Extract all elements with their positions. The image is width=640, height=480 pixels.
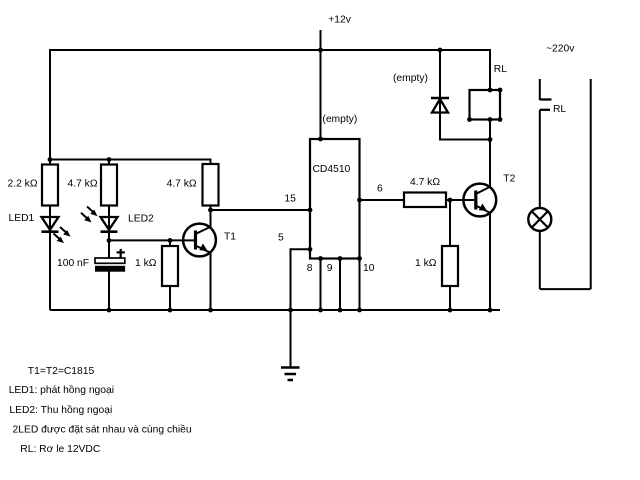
svg-text:1 kΩ: 1 kΩ bbox=[135, 258, 157, 269]
wire C1 bottom bbox=[108, 272, 110, 311]
node rail T1 emitter bbox=[208, 308, 213, 313]
node IC feed at IC top bbox=[318, 137, 323, 142]
relay RL coil box bbox=[470, 90, 501, 120]
svg-text:9: 9 bbox=[327, 263, 333, 274]
node pin8 top bbox=[318, 256, 323, 261]
LED2 receive arrow a bbox=[87, 207, 95, 214]
svg-text:6: 6 bbox=[377, 184, 383, 195]
transistor T2 collector bbox=[477, 140, 490, 194]
node rail T2 emitter bbox=[488, 308, 493, 313]
+12v stub wire bbox=[320, 30, 322, 50]
transistor T1 circle bbox=[183, 224, 216, 257]
resistor R5 1k box bbox=[162, 246, 178, 286]
LED1 emit arrow a bbox=[60, 227, 68, 234]
resistor R1 2.2k box bbox=[42, 165, 58, 206]
wire pin9 bbox=[339, 259, 341, 311]
wire ground stem bbox=[290, 310, 292, 368]
capacitor C1 100nF plus sign bbox=[117, 249, 125, 258]
node diode top junction bbox=[438, 48, 443, 53]
resistor R6 1k box bbox=[442, 246, 458, 286]
wire IC power feed bbox=[320, 50, 322, 139]
wire stub R2 bbox=[108, 160, 110, 166]
transistor T1 emitter arrow bbox=[199, 244, 207, 251]
svg-text:CD4510: CD4510 bbox=[313, 164, 351, 175]
svg-text:LED2: Thu hồng ngoại: LED2: Thu hồng ngoại bbox=[9, 404, 112, 416]
svg-text:T1: T1 bbox=[224, 232, 236, 243]
wire R4 to T2 base bbox=[446, 199, 474, 201]
wire mains bottom bbox=[540, 288, 591, 290]
svg-text:RL: RL bbox=[553, 104, 566, 115]
svg-text:2LED được đặt sát nhau và cùng: 2LED được đặt sát nhau và cùng chiều bbox=[13, 424, 192, 436]
LED1 emit arrow b bbox=[54, 234, 62, 241]
transistor T2 circle bbox=[463, 184, 496, 217]
wire R6 bottom stub bbox=[449, 286, 451, 310]
wire diode bottom bbox=[440, 113, 490, 140]
svg-text:5: 5 bbox=[278, 233, 284, 244]
resistor R4 4.7k box bbox=[404, 193, 446, 208]
wire relay bottom stub bbox=[489, 120, 491, 140]
transistor T2 emitter bbox=[477, 206, 490, 310]
node relay top right corner bbox=[498, 88, 503, 93]
node rail R5 bbox=[168, 308, 173, 313]
node pin10 top bbox=[357, 256, 362, 261]
svg-text:LED2: LED2 bbox=[128, 214, 154, 225]
node junction T2 base / R6 bbox=[448, 198, 453, 203]
switch RL contact lower tick bbox=[540, 109, 550, 111]
node relay bottom pin bbox=[488, 117, 493, 122]
node pin15 at IC bbox=[308, 208, 313, 213]
svg-text:4.7 kΩ: 4.7 kΩ bbox=[410, 177, 440, 188]
node relay bottom junction bbox=[488, 137, 493, 142]
node relay top pin bbox=[488, 88, 493, 93]
transistor T1 base bar bbox=[194, 231, 197, 250]
wire LED2 column upper bbox=[108, 206, 110, 259]
transistor T2 emitter arrow bbox=[479, 204, 487, 211]
wire pin15 bbox=[211, 209, 311, 211]
node rail R6 bbox=[448, 308, 453, 313]
svg-text:1 kΩ: 1 kΩ bbox=[415, 258, 437, 269]
ground bbox=[281, 368, 300, 381]
node rail pin8 bbox=[318, 308, 323, 313]
node rail ground bbox=[288, 308, 293, 313]
wire pin8 bbox=[320, 259, 322, 311]
transistor T2 base bar bbox=[474, 191, 477, 210]
wire pin6 bbox=[360, 199, 405, 201]
node pin5 at IC bbox=[308, 247, 313, 252]
node pin9 top bbox=[338, 256, 343, 261]
svg-text:15: 15 bbox=[284, 194, 296, 205]
svg-text:LED1: LED1 bbox=[9, 213, 35, 224]
LED2 receive arrow b bbox=[81, 213, 89, 220]
transistor T1 emitter bbox=[197, 246, 211, 310]
wire mains right bbox=[590, 79, 592, 289]
node rail pin10 bbox=[357, 308, 362, 313]
node rail C1 bbox=[107, 308, 112, 313]
svg-text:2.2 kΩ: 2.2 kΩ bbox=[8, 179, 38, 190]
LED2 diode triangle bbox=[101, 217, 118, 230]
LED1 cathode bar bbox=[42, 230, 59, 233]
svg-text:4.7 kΩ: 4.7 kΩ bbox=[167, 179, 197, 190]
node junction R2-bus bbox=[107, 157, 112, 162]
node IC feed at rail bbox=[318, 48, 323, 53]
wire LED1 column bbox=[49, 206, 51, 311]
diode D1 cathode bar bbox=[431, 97, 449, 100]
resistor R3 4.7k box bbox=[203, 164, 219, 206]
node junction T1 collector bbox=[208, 208, 213, 213]
wire lamp to bottom bbox=[539, 231, 541, 289]
wire pin5 bbox=[291, 249, 311, 310]
wire top rail bbox=[50, 50, 490, 160]
wire R5 bottom stub bbox=[169, 286, 171, 310]
svg-text:10: 10 bbox=[363, 263, 375, 274]
node junction left-bus bbox=[48, 157, 53, 162]
svg-text:T1=T2=C1815: T1=T2=C1815 bbox=[28, 366, 95, 377]
svg-text:8: 8 bbox=[307, 263, 313, 274]
wire diode anode column bbox=[439, 50, 441, 140]
wire R6 top bbox=[449, 200, 451, 246]
diode D1 triangle bbox=[432, 99, 448, 113]
node rail pin9 bbox=[338, 308, 343, 313]
svg-text:+12v: +12v bbox=[328, 15, 351, 26]
wire stub R1 bbox=[49, 160, 51, 166]
svg-text:(empty): (empty) bbox=[393, 73, 428, 84]
svg-text:RL: Rơ le 12VDC: RL: Rơ le 12VDC bbox=[20, 444, 101, 455]
wire resistor top bus bbox=[50, 160, 211, 165]
resistor R2 4.7k box bbox=[101, 165, 117, 206]
svg-text:RL: RL bbox=[494, 64, 507, 75]
wire T1 base bbox=[109, 239, 194, 241]
svg-text:T2: T2 bbox=[503, 174, 515, 185]
wire pin10 bbox=[359, 259, 361, 311]
node junction LED2-base bbox=[107, 238, 112, 243]
node relay bottom right corner bbox=[498, 117, 503, 122]
LED2 cathode bar bbox=[101, 230, 118, 233]
capacitor C1 bottom plate bbox=[95, 266, 125, 272]
op-amp U1 CD4510 box bbox=[310, 139, 360, 259]
wire stub R5 bbox=[169, 240, 171, 246]
wire bottom rail bbox=[50, 309, 500, 311]
wire mains left lower bbox=[539, 110, 541, 208]
svg-text:4.7 kΩ: 4.7 kΩ bbox=[68, 179, 98, 190]
transistor T1 collector bbox=[197, 210, 211, 234]
LED1 diode triangle bbox=[42, 217, 59, 230]
svg-text:(empty): (empty) bbox=[322, 114, 357, 125]
node relay bottom left corner bbox=[467, 117, 472, 122]
wire R3 bottom stub bbox=[210, 206, 212, 211]
svg-text:100 nF: 100 nF bbox=[57, 258, 89, 269]
node junction R5 top bbox=[168, 238, 173, 243]
svg-text:LED1: phát hồng ngoại: LED1: phát hồng ngoại bbox=[9, 384, 114, 396]
wire mains left upper bbox=[539, 79, 541, 100]
lamp bbox=[528, 208, 551, 231]
capacitor C1 top plate bbox=[95, 258, 125, 263]
svg-text:~220v: ~220v bbox=[546, 44, 575, 55]
node pin6 at IC bbox=[357, 198, 362, 203]
switch RL contact upper tick bbox=[540, 98, 552, 100]
